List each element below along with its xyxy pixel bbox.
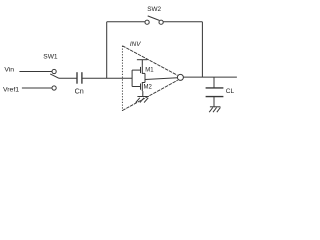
svg-text:SW1: SW1: [43, 53, 58, 60]
svg-text:Vref1: Vref1: [3, 87, 19, 94]
svg-text:M1: M1: [145, 67, 154, 73]
svg-text:CL: CL: [226, 88, 235, 95]
svg-text:M2: M2: [144, 84, 153, 90]
svg-text:SW2: SW2: [147, 6, 161, 13]
svg-text:Cn: Cn: [75, 87, 84, 96]
svg-text:INV: INV: [130, 41, 141, 48]
svg-text:Vin: Vin: [4, 67, 14, 74]
